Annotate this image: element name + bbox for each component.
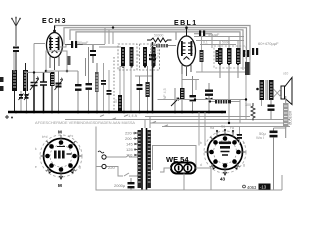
wire top left net	[13, 44, 52, 92]
wire grid row	[60, 45, 105, 48]
svg-text:a+c: a+c	[68, 134, 74, 138]
output transformer T4	[256, 80, 273, 100]
capacitor C12 anode	[194, 31, 220, 38]
svg-text:125: 125	[126, 147, 133, 152]
tube V2 EBL1	[178, 26, 196, 76]
svg-text:43: 43	[220, 177, 226, 182]
svg-text:ECH3: ECH3	[42, 18, 67, 25]
box WE54	[153, 146, 197, 171]
resistor R12	[200, 37, 204, 62]
IF transformer T2	[122, 44, 160, 70]
wire gang dashed	[113, 57, 115, 110]
coil L3 oscillator	[95, 63, 99, 112]
wire EBL1 anode rows	[194, 34, 244, 48]
svg-text:b: b	[200, 141, 202, 145]
svg-text:50: 50	[114, 99, 118, 103]
capacitor C10	[149, 54, 156, 60]
resistor R10	[245, 103, 255, 121]
trimmer capacitor C1a	[19, 91, 24, 112]
tube V1 ECH3	[47, 26, 63, 71]
label caption bottom	[35, 121, 136, 125]
padder capacitor C5	[55, 71, 63, 112]
wire mid row	[46, 67, 124, 72]
svg-text:-13: -13	[260, 185, 267, 190]
svg-text:M: M	[58, 183, 62, 188]
svg-text:300: 300	[245, 103, 251, 107]
capacitor C17	[114, 178, 135, 190]
wire avc bus nested lines	[55, 26, 250, 61]
rectifier tube V3	[160, 163, 211, 191]
svg-text:Wa I: Wa I	[256, 135, 264, 140]
transformer T5 mains	[138, 128, 151, 190]
label drawing number	[243, 184, 271, 190]
label WE 54	[166, 155, 189, 164]
capacitor C16 electrolytic	[259, 128, 278, 190]
resistor R8	[180, 74, 185, 112]
svg-text:4063: 4063	[247, 185, 257, 190]
IF transformer T1	[99, 44, 140, 70]
wire right drops	[243, 56, 250, 75]
wire IF drops	[131, 66, 153, 112]
junction dots on bus	[15, 111, 224, 114]
resistor R4	[146, 66, 150, 112]
capacitor C3 grid	[65, 41, 89, 48]
variable capacitor C1	[30, 72, 39, 112]
capacitor C21	[237, 127, 242, 146]
svg-text:2000μ: 2000μ	[114, 183, 126, 188]
coil L5	[151, 44, 176, 47]
svg-text:AFGESCHERMDE VERBINDINGSDRADEN: AFGESCHERMDE VERBINDINGSDRADEN AAN MASSA	[35, 121, 136, 125]
svg-text:5000: 5000	[222, 41, 230, 45]
svg-text:145: 145	[126, 142, 133, 147]
svg-text:Ca: Ca	[221, 125, 225, 129]
svg-text:g: g	[243, 163, 245, 167]
wire speaker net	[262, 89, 282, 106]
potentiometer R7 volume	[171, 88, 179, 112]
svg-text:e: e	[35, 165, 37, 169]
label values row	[203, 41, 230, 45]
coil L2	[23, 63, 28, 97]
capacitor C13	[243, 50, 249, 57]
svg-text:g: g	[79, 165, 81, 169]
svg-text:220: 220	[108, 165, 115, 170]
wire mid right row	[196, 62, 246, 100]
svg-text:f: f	[79, 147, 80, 151]
capacitor C14	[252, 48, 258, 55]
wire dark vertical	[152, 42, 154, 112]
wire EBL1 cathode row	[182, 80, 199, 91]
label 50 vertical	[114, 99, 118, 103]
svg-text:M: M	[58, 130, 62, 135]
svg-text:1,4 A: 1,4 A	[128, 113, 137, 118]
capacitor C18 electrolytic	[205, 83, 213, 112]
wire mains taps	[133, 133, 138, 155]
label WF4,5	[163, 88, 167, 100]
capacitor C8	[137, 76, 143, 112]
socket S2 (43)	[200, 125, 246, 182]
label ECH3	[42, 18, 67, 25]
wire plug to transformer	[96, 127, 138, 191]
svg-text:Fa: Fa	[230, 126, 234, 130]
trimmer capacitor C1b	[24, 94, 29, 113]
antenna	[12, 17, 21, 46]
terminal strip left edge	[0, 77, 4, 91]
svg-text:Ra: Ra	[210, 126, 214, 130]
svg-text:b+d: b+d	[42, 135, 48, 139]
svg-text:60+470μμF: 60+470μμF	[258, 41, 279, 46]
wire heater lines	[65, 100, 290, 129]
svg-text:WF 4,5: WF 4,5	[163, 88, 167, 100]
resistor R13	[216, 50, 220, 62]
wire drops to IF1	[105, 26, 114, 44]
resistor R11 dropper	[283, 99, 293, 138]
svg-text:0,1: 0,1	[203, 41, 208, 45]
capacitor antenna series	[13, 47, 19, 71]
ground bus	[5, 112, 226, 119]
svg-text:a: a	[243, 141, 245, 145]
capacitor C11	[190, 76, 197, 112]
loudspeaker LS	[281, 72, 292, 105]
capacitor C2	[40, 72, 47, 112]
label R5 value	[154, 34, 164, 38]
capacitor C6	[75, 71, 82, 112]
coil L6 horizontal	[208, 100, 240, 104]
shield box ECH3	[45, 51, 71, 72]
resistor R9	[245, 62, 250, 75]
mains plug P1	[98, 151, 115, 170]
svg-text:o10: o10	[283, 72, 289, 76]
label Wa	[256, 135, 264, 140]
svg-text:50000: 50000	[154, 34, 164, 38]
capacitor C7	[86, 47, 93, 112]
resistor R2	[50, 72, 55, 112]
label cap values	[258, 41, 279, 46]
wire bottom line	[127, 175, 282, 190]
svg-text:d: d	[200, 163, 202, 167]
capacitor C20	[107, 70, 112, 112]
label fuse	[128, 113, 137, 118]
output transformer T3 primary	[214, 46, 246, 99]
coil L4	[118, 66, 124, 112]
wire right edge	[274, 96, 286, 128]
coil L1 antenna	[12, 70, 17, 112]
capacitor C4	[90, 45, 96, 64]
wire drops to power unit	[199, 112, 205, 146]
svg-text:200: 200	[125, 136, 132, 141]
capacitor C19	[101, 63, 106, 112]
dashed box small	[151, 45, 159, 58]
resistor R5 grid stopper	[147, 38, 172, 42]
capacitor C15	[268, 100, 275, 120]
label mains taps	[125, 131, 136, 158]
socket S1 (M)	[35, 130, 82, 189]
label EBL1	[174, 20, 198, 27]
svg-text:GLOEIDR: GLOEIDR	[289, 110, 293, 125]
